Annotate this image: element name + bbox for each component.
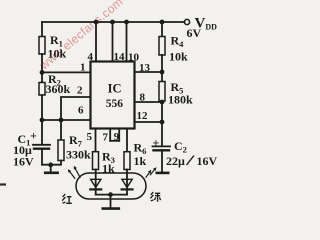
svg-text:1k: 1k [134,154,147,168]
node B pin6 [40,118,45,123]
capacitor C2 [153,145,171,147]
node pin4 on rail [94,20,99,25]
svg-text:5: 5 [87,131,93,143]
svg-text:7: 7 [103,132,109,144]
node R4 on rail [160,20,165,25]
wire pin10 [126,22,128,62]
svg-text:1k: 1k [102,162,115,176]
wire ground bus left [42,161,61,165]
ground G3 [157,172,168,175]
node R7 top [59,118,64,123]
label slash [187,156,195,166]
wire pin5 to R3 [95,129,97,152]
svg-text:22μ: 22μ [166,154,185,168]
wire C1 bottom [41,149,43,165]
wire tie pins 7-9 [110,140,119,142]
LED1 emission arrows [68,166,80,179]
svg-text:330k: 330k [66,148,91,162]
resistor R1 [39,37,45,55]
svg-text:9: 9 [114,132,119,143]
capacitor C1 [33,145,50,149]
svg-text:556: 556 [106,98,124,110]
svg-text:14: 14 [114,51,126,63]
wire to ground G2 [110,195,112,208]
svg-text:6V: 6V [187,26,202,40]
svg-text:4: 4 [88,51,94,63]
resistor R6 [124,152,130,170]
wire pin8 [135,101,163,103]
resistor R2 [39,83,45,96]
svg-text:10k: 10k [48,47,67,61]
wire pin14 [112,22,114,62]
node ground C1 [48,163,53,168]
svg-text:360k: 360k [46,82,71,96]
wire R1 to node A [41,54,43,83]
IC U1 556 box [91,62,135,129]
wire IC bottom to R6 [126,129,128,152]
node pin13 [160,70,165,75]
wire right rail to C2 [161,101,163,146]
wire pin12 [135,121,163,123]
svg-text:IC: IC [108,82,122,96]
svg-text:10k: 10k [169,50,188,64]
LED2 emission arrows [146,167,157,177]
wire top VDD rail [42,21,185,23]
resistor R3 [93,152,99,170]
wire pin9 [118,129,120,141]
wire cathode rail [96,194,127,196]
wire pin6 [42,119,91,121]
label red (hong) [62,194,72,203]
svg-text:+: + [153,136,160,150]
node A pin1 [40,70,45,75]
node pin8 [160,100,165,105]
node LED cathodes [108,192,113,197]
resistor R4 [159,37,165,56]
svg-text:12: 12 [137,110,149,122]
terminal VDD circle [184,19,189,24]
svg-text:16V: 16V [197,154,218,168]
wire node B to R7 [60,120,62,140]
node pin12 [160,120,165,125]
wire R2 to node B [41,95,43,144]
svg-text:+: + [30,129,37,143]
wire pin4 [95,22,97,62]
resistor R7 [58,140,64,161]
node pin10 on rail [124,20,129,25]
svg-text:2: 2 [77,85,83,97]
svg-text:8: 8 [140,92,146,104]
svg-text:10: 10 [128,52,140,64]
LED D1 red [95,170,97,190]
wire pin2 [61,97,91,120]
LED D2 green [126,170,128,190]
wire pin13 [135,71,163,73]
ground G1 [50,165,52,172]
wire pin7 [109,129,111,141]
ground G2 [103,207,119,210]
wire R4 to R5 [161,55,163,82]
node pin14 on rail [110,20,115,25]
resistor R5 [159,82,165,102]
svg-text:6: 6 [78,105,84,117]
svg-text:180k: 180k [168,93,193,107]
svg-text:13: 13 [139,62,151,74]
wire right rail R4 top [161,22,163,37]
wire C2 bottom [161,150,163,172]
watermark www.elecfans.com [36,0,126,73]
svg-text:16V: 16V [13,155,34,169]
scan speck bottom-left [0,183,6,185]
LED enclosure oval [76,173,146,199]
wire left rail upper [41,22,43,37]
svg-text:1: 1 [80,62,86,74]
wire pin1 [42,71,91,73]
label green (lv) [150,192,160,202]
